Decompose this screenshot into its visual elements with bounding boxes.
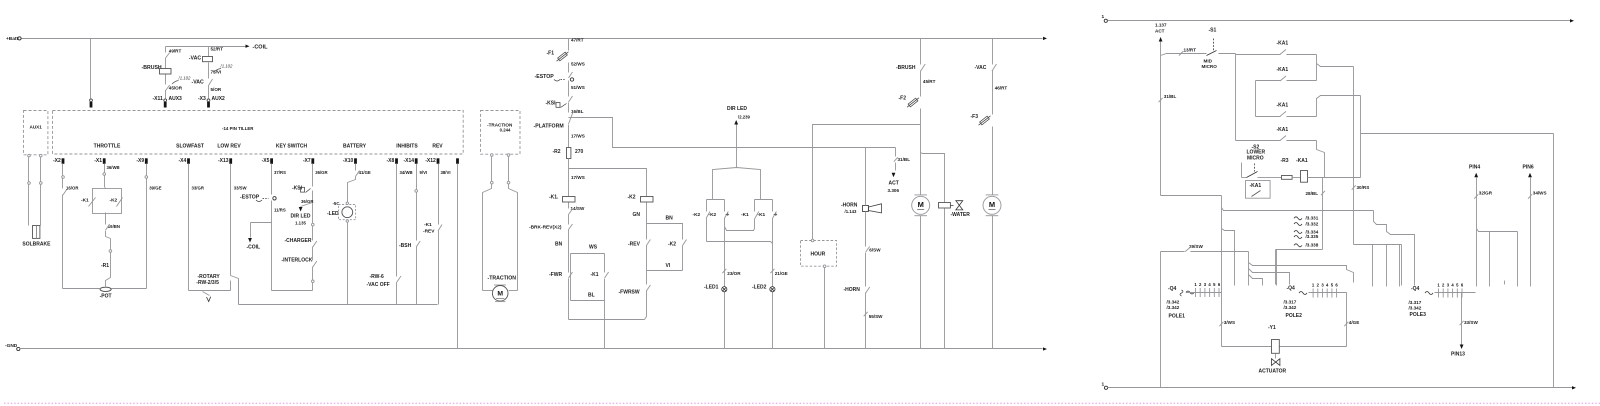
svg-text:-BRUSH: -BRUSH: [142, 65, 162, 71]
switch /3.331: [1294, 216, 1319, 221]
svg-text:ACT: ACT: [1155, 28, 1165, 33]
svg-text:ACT: ACT: [889, 181, 899, 187]
wire 31/BL right: [1159, 94, 1177, 102]
wire mid bus: [1235, 54, 1237, 141]
node AUX2: [198, 96, 225, 108]
svg-text:POLE3: POLE3: [1410, 312, 1427, 318]
svg-text:-KA1: -KA1: [1277, 127, 1289, 133]
switch pair -K1 -K1: [741, 200, 777, 349]
svg-text:-X11: -X11: [153, 96, 164, 102]
svg-text:1: 1: [1437, 283, 1440, 288]
svg-text:-LED: -LED: [327, 211, 339, 217]
svg-text:-5C: -5C: [333, 201, 340, 206]
wire GND rail: [17, 347, 1047, 350]
svg-text:32/GR: 32/GR: [1479, 191, 1493, 196]
wire X2 drop: [62, 164, 80, 289]
svg-text:1: 1: [1312, 283, 1315, 288]
wire M1 down: [920, 216, 922, 349]
svg-text:-F2: -F2: [899, 96, 907, 102]
svg-text:BN: BN: [666, 215, 674, 221]
svg-text:-F3: -F3: [971, 114, 979, 120]
switch -INTERLOCK: [282, 258, 317, 281]
wire K1 box bottom: [571, 257, 605, 349]
svg-text:-K1: -K1: [424, 222, 432, 228]
svg-text:-TRACTION: -TRACTION: [488, 276, 517, 282]
svg-text:6/SW: 6/SW: [869, 247, 881, 252]
svg-text:-K2: -K2: [628, 194, 636, 200]
wire VI label: [666, 263, 671, 269]
ref PIN6: [1523, 164, 1547, 286]
switch -REV: [628, 240, 650, 285]
wire K2 bottom link: [707, 242, 773, 244]
wire H1 bus: [1222, 208, 1415, 286]
wire X12 drop 38/VI: [439, 164, 451, 225]
node -COIL label: [253, 45, 269, 51]
label KEY SWITCH: [276, 143, 308, 149]
svg-text:-REV: -REV: [628, 242, 641, 248]
wire tick 1504: [1504, 281, 1506, 285]
box AUX1: [24, 111, 48, 155]
throttle switch box K1 K2: [81, 188, 123, 219]
wire 30/RS: [1352, 185, 1370, 190]
pin -X12: [425, 158, 439, 164]
box HOUR: [801, 239, 837, 267]
svg-text:/1.102: /1.102: [178, 76, 192, 81]
node GND label: [5, 343, 18, 349]
svg-text:M: M: [918, 200, 924, 209]
motor -TRACTION M: [488, 276, 517, 302]
svg-text:-R3: -R3: [1281, 158, 1289, 164]
svg-text:1.137: 1.137: [1155, 22, 1167, 27]
svg-text:-R2: -R2: [553, 149, 561, 155]
node interlock out: [312, 280, 315, 291]
wire traction right: [507, 154, 517, 291]
svg-text:36/GR: 36/GR: [301, 199, 314, 204]
svg-text:23/OR: 23/OR: [727, 271, 741, 276]
wire X10 drop 41/GE: [348, 164, 371, 203]
svg-text:2: 2: [1317, 283, 1320, 288]
svg-text:3: 3: [1321, 283, 1324, 288]
svg-text:PIN13: PIN13: [1451, 351, 1465, 357]
svg-text:-RW-6: -RW-6: [370, 274, 384, 280]
svg-text:37/RS: 37/RS: [274, 170, 286, 175]
svg-text:2: 2: [1199, 282, 1202, 287]
wire platform branch: [569, 118, 896, 148]
svg-text:-14 PIN TILLER: -14 PIN TILLER: [222, 126, 254, 131]
svg-text:-K1: -K1: [81, 198, 89, 204]
svg-text:9/VI: 9/VI: [420, 170, 428, 175]
wire h272: [1249, 269, 1290, 285]
switch -BSH: [399, 241, 420, 305]
svg-text:-K2: -K2: [110, 198, 118, 204]
wire pin4 jog: [1477, 229, 1518, 287]
svg-text:30/RS: 30/RS: [1357, 185, 1370, 190]
svg-text:4: 4: [1451, 283, 1454, 288]
resistor -R2 270: [553, 133, 584, 169]
svg-text:-KSI: -KSI: [546, 101, 557, 107]
resistor -BRUSH: [142, 65, 172, 74]
ref ACT 3.306: [888, 148, 911, 194]
svg-text:3/WS: 3/WS: [1224, 320, 1235, 325]
svg-text:/3.335: /3.335: [1306, 234, 1319, 239]
wire 52/WS: [571, 62, 585, 67]
ref DIR LED /2.239: [727, 106, 751, 168]
switch -VAC: [192, 79, 213, 99]
svg-text:REV: REV: [432, 143, 443, 149]
wire X13 drop: [231, 164, 248, 305]
pin -X4: [179, 158, 190, 164]
svg-text:31/BL: 31/BL: [1164, 94, 1177, 99]
resistor -R1: [101, 253, 111, 287]
label BATTERY: [343, 143, 367, 149]
connector -Q4 POLE1: [1167, 282, 1222, 320]
svg-text:52/RT: 52/RT: [211, 47, 224, 52]
svg-text:17/WS: 17/WS: [571, 175, 585, 180]
svg-text:-ESTOP: -ESTOP: [240, 195, 260, 201]
switch -K1 -REV: [423, 222, 442, 305]
wire 14/SW: [569, 206, 585, 225]
svg-text:51/WS: 51/WS: [571, 85, 585, 90]
switch -KSI: [292, 185, 314, 223]
svg-text:34/WS: 34/WS: [1533, 191, 1547, 196]
svg-text:3: 3: [1447, 283, 1450, 288]
wire 13/RT: [1161, 47, 1207, 55]
pink dotted page border: [4, 402, 1600, 404]
wire dir fork: [713, 168, 761, 200]
svg-text:/3.317: /3.317: [1409, 300, 1422, 305]
switch -FWR: [549, 254, 573, 320]
wire charger bottom: [272, 290, 313, 292]
coil -VAC: [189, 56, 213, 62]
svg-text:/3.342: /3.342: [1284, 305, 1297, 310]
svg-text:BL: BL: [588, 293, 595, 299]
svg-text:5: 5: [1456, 283, 1459, 288]
svg-text:DIR LED: DIR LED: [727, 106, 747, 112]
wire 52/RT: [209, 47, 224, 57]
svg-text:6: 6: [1335, 283, 1338, 288]
switch /3.338: [1294, 243, 1319, 248]
svg-text:-K2: -K2: [668, 242, 676, 248]
svg-text:3.306: 3.306: [888, 188, 900, 193]
switch -S2 LOWER MICRO: [1242, 144, 1270, 177]
svg-text:AUX2: AUX2: [212, 96, 226, 102]
svg-text:45/RT: 45/RT: [923, 79, 936, 84]
svg-text:-K1: -K1: [758, 212, 766, 218]
svg-text:SLOWFAST: SLOWFAST: [176, 143, 204, 149]
wire 4/GE: [1344, 293, 1359, 347]
wire 21/GE: [770, 269, 787, 276]
svg-text:-K1.: -K1.: [549, 194, 559, 200]
bus lower left: [239, 281, 438, 305]
wire +BATT rail: [18, 37, 1047, 40]
pin -X2: [53, 158, 64, 164]
ref PIN4: [1469, 164, 1493, 286]
wire K2 BN branch: [647, 215, 683, 239]
svg-text:-WATER: -WATER: [951, 212, 971, 218]
svg-text:-X10: -X10: [343, 158, 354, 164]
svg-text:3: 3: [1204, 282, 1207, 287]
pin -X10: [343, 158, 357, 164]
svg-text:-X9: -X9: [136, 158, 144, 164]
svg-text:-X3: -X3: [198, 96, 206, 102]
wire pump hour link: [813, 125, 921, 241]
wire K1 parallel box: [571, 245, 605, 273]
svg-text:36/GR: 36/GR: [315, 170, 328, 175]
svg-text:13/RT: 13/RT: [1184, 47, 1197, 52]
svg-text:-X4: -X4: [179, 158, 187, 164]
svg-text:BATTERY: BATTERY: [343, 143, 367, 149]
pin -X7: [303, 158, 314, 164]
valve -WATER: [939, 201, 971, 349]
svg-text:11/RS: 11/RS: [274, 208, 286, 213]
ref /1.102 b: [172, 76, 191, 84]
svg-text:-K2: -K2: [693, 212, 701, 218]
wire K2 box bottom: [647, 270, 683, 272]
wire aux1 right: [40, 154, 43, 225]
wire X8 drop 34/WB: [397, 164, 413, 277]
svg-text:5/OR: 5/OR: [211, 87, 222, 92]
svg-text:21/GE: 21/GE: [775, 271, 788, 276]
switch -KA1 row4: [1236, 127, 1325, 178]
node +Batt label: [6, 36, 19, 42]
svg-text:-VAC: -VAC: [975, 65, 987, 71]
svg-text:-K1: -K1: [741, 212, 749, 218]
svg-text:PIN4: PIN4: [1469, 164, 1480, 170]
svg-text:-KSI: -KSI: [292, 185, 303, 191]
svg-text:2: 2: [1442, 283, 1445, 288]
svg-text:POLE1: POLE1: [1169, 314, 1186, 320]
svg-text:-X13: -X13: [218, 158, 229, 164]
svg-text:-VAC: -VAC: [189, 56, 202, 62]
svg-text:-S1: -S1: [1209, 28, 1217, 34]
wire h95: [1317, 96, 1361, 178]
svg-text:0.244: 0.244: [500, 128, 511, 133]
svg-text:-POT: -POT: [100, 294, 112, 300]
wire brush drop: [920, 39, 922, 65]
svg-text:-KA1: -KA1: [1277, 67, 1289, 73]
svg-text:36/WB: 36/WB: [107, 165, 120, 170]
svg-text:1: 1: [1102, 381, 1105, 387]
svg-text:-X14: -X14: [403, 158, 414, 164]
svg-text:VI: VI: [666, 263, 671, 269]
relay coil -KA1: [1296, 158, 1361, 182]
svg-text:4/GE: 4/GE: [1349, 320, 1359, 325]
svg-text:39/GE: 39/GE: [149, 185, 161, 190]
switch -PLATFORM: [534, 112, 585, 139]
wire K1K2 jog: [725, 227, 755, 231]
switch -HORN: [844, 287, 884, 349]
svg-text:-X5: -X5: [262, 158, 270, 164]
wire main feed top: [569, 38, 584, 49]
svg-text:46/RT: 46/RT: [995, 86, 1008, 91]
svg-text:17/WS: 17/WS: [571, 134, 585, 139]
svg-text:-REV: -REV: [423, 228, 435, 234]
svg-text:-Y1: -Y1: [1268, 325, 1276, 331]
svg-text:/3.332: /3.332: [1306, 221, 1319, 226]
svg-text:-CHARGER: -CHARGER: [285, 238, 312, 244]
svg-text:MICRO: MICRO: [1247, 155, 1264, 161]
svg-text:BN: BN: [555, 242, 563, 248]
svg-text:-HORN: -HORN: [841, 202, 858, 208]
svg-text:55/SW: 55/SW: [869, 314, 883, 319]
wire 17/WS b: [569, 169, 585, 197]
wire BN label: [555, 242, 563, 248]
svg-text:270: 270: [575, 149, 584, 155]
resistor -R3: [1270, 158, 1301, 179]
svg-text:GN: GN: [633, 212, 641, 218]
svg-text:45/OR: 45/OR: [169, 86, 183, 91]
switch -RW-6 -VAC OFF: [367, 274, 402, 305]
svg-text:38/VI: 38/VI: [441, 170, 451, 175]
svg-text:5: 5: [1213, 282, 1216, 287]
svg-text:-KA1: -KA1: [1250, 183, 1262, 189]
svg-text:-R1: -R1: [101, 263, 109, 269]
svg-text:POLE2: POLE2: [1286, 313, 1303, 319]
pin -X8: [387, 158, 398, 164]
wire h265: [1249, 263, 1354, 283]
lamp -LED: [327, 201, 356, 222]
fuse -F2: [899, 95, 921, 195]
ref DIR LED 1.135: [291, 203, 313, 226]
svg-text:14/SW: 14/SW: [571, 206, 585, 211]
svg-text:-Q4: -Q4: [1287, 286, 1296, 292]
wire 28/BL: [1306, 178, 1326, 250]
wire M2 down: [992, 216, 994, 349]
svg-text:/1.102: /1.102: [220, 64, 234, 69]
svg-text:/3.342: /3.342: [1167, 299, 1180, 304]
switch /3.332: [1294, 221, 1319, 226]
wire X7 drop 36/GR: [313, 164, 329, 187]
switch -S1: [1202, 28, 1236, 69]
switch -VAC main: [975, 64, 1008, 113]
svg-text:PIN6: PIN6: [1523, 164, 1534, 170]
svg-text:-Q4: -Q4: [1411, 286, 1420, 292]
svg-text:+Batt: +Batt: [6, 36, 19, 42]
wire X14 drop 9/VI: [415, 164, 427, 241]
motor vac M2: [983, 195, 1001, 216]
svg-text:-X1: -X1: [94, 158, 102, 164]
contactor coil -K2: [628, 194, 654, 239]
svg-text:33/SW: 33/SW: [1464, 320, 1478, 325]
svg-text:6: 6: [1218, 282, 1221, 287]
wire 49/RT: [165, 47, 181, 69]
wire act out: [1161, 196, 1222, 293]
fuse -F3: [971, 113, 993, 195]
wire 33/SW PIN13: [1451, 293, 1478, 358]
svg-text:/3.342: /3.342: [1409, 305, 1422, 310]
connector -Q4 POLE3: [1409, 283, 1476, 319]
svg-text:-BRUSH: -BRUSH: [896, 65, 916, 71]
svg-text:LOW REV: LOW REV: [217, 143, 241, 149]
wire LED down: [347, 223, 349, 305]
svg-text:/3.331: /3.331: [1306, 216, 1319, 221]
svg-text:DIR LED: DIR LED: [291, 213, 311, 219]
switch /3.335: [1294, 234, 1319, 239]
wire horn drop: [866, 148, 882, 287]
wire coil branch: [247, 223, 272, 251]
switch pair -K2 -K2: [693, 200, 729, 349]
wire drop 1372: [1372, 245, 1374, 287]
wire fwr bottom bus: [569, 297, 647, 320]
svg-text:/3.317: /3.317: [1284, 299, 1297, 304]
wire 3/WS: [1219, 293, 1235, 347]
svg-text:-X7: -X7: [303, 158, 311, 164]
svg-text:-ESTOP: -ESTOP: [535, 74, 555, 80]
pin -X14: [403, 158, 417, 164]
wire X9 drop: [145, 164, 162, 289]
wire 29SW v: [1160, 252, 1162, 388]
svg-text:-KA1: -KA1: [1277, 40, 1289, 46]
horn -HORN /1.143: [841, 202, 882, 214]
ref /1.102 a: [214, 64, 233, 73]
svg-text:M: M: [497, 290, 503, 297]
svg-text:1: 1: [1102, 14, 1105, 20]
svg-text:1: 1: [1194, 282, 1197, 287]
switch -BRUSH: [896, 64, 936, 95]
wire q2 feed: [1276, 250, 1278, 286]
wire 5/OR: [211, 87, 222, 92]
switch -ROTARY: [189, 274, 231, 302]
label THROTTLE: [94, 143, 121, 149]
wire vac drop: [992, 39, 994, 65]
wire BL label: [588, 293, 595, 299]
label REV: [432, 143, 443, 149]
wire 29/SW: [1161, 244, 1249, 286]
switch -FWRSW: [619, 285, 651, 297]
lamp -LED2: [752, 285, 775, 292]
svg-text:-RW-2/3/5: -RW-2/3/5: [196, 280, 219, 286]
pin -X5: [262, 158, 273, 164]
switch -K1 aux: [591, 272, 609, 301]
switch -KA1 row3: [1256, 102, 1317, 116]
svg-text:-BRK-REV(X2): -BRK-REV(X2): [529, 224, 562, 230]
svg-text:28/BL: 28/BL: [1306, 191, 1319, 196]
svg-text:M: M: [989, 200, 995, 209]
wire pot bottom: [63, 288, 147, 290]
svg-text:47/RT: 47/RT: [571, 38, 584, 43]
fuse -F1: [547, 49, 570, 73]
wire X5 drop 37/RS: [272, 164, 287, 195]
svg-text:49/RT: 49/RT: [169, 48, 182, 53]
svg-text:-COIL: -COIL: [253, 45, 269, 51]
box -TRACTION ref: [481, 111, 521, 155]
svg-text:WS: WS: [589, 245, 598, 251]
svg-text:/1.143: /1.143: [845, 209, 858, 214]
wire traction left: [483, 154, 494, 291]
svg-text:HOUR: HOUR: [811, 252, 826, 258]
wire drop 1399: [1399, 245, 1401, 287]
svg-text:4: 4: [1326, 283, 1329, 288]
ref 1.137 ACT: [1155, 22, 1167, 195]
switch -KA1 row2: [1256, 67, 1317, 117]
pin -X13: [218, 158, 232, 164]
svg-text:AUX1: AUX1: [30, 124, 43, 129]
svg-text:4: 4: [1208, 282, 1211, 287]
wire v1353: [1353, 67, 1355, 245]
svg-text:MID: MID: [1204, 59, 1213, 64]
svg-text:-PLATFORM: -PLATFORM: [534, 124, 564, 130]
svg-text:-FWR: -FWR: [549, 272, 562, 278]
svg-text:KEY SWITCH: KEY SWITCH: [276, 143, 308, 149]
switch -BRK-REV(X2): [529, 224, 573, 254]
node X7 mid: [312, 223, 315, 240]
svg-text:41/GE: 41/GE: [359, 170, 371, 175]
wire 51/WS: [571, 85, 585, 90]
label SLOWFAST: [176, 143, 204, 149]
switch -K2 aux: [668, 240, 687, 271]
svg-text:-LED2: -LED2: [752, 285, 767, 291]
wire X1 drop: [103, 164, 120, 188]
